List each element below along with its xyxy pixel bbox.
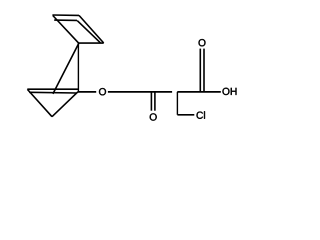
atom label O (ester) bbox=[99, 88, 106, 95]
wire: R2 left arm bbox=[27, 89, 52, 116]
wire: CH2 vertical bond bbox=[176, 92, 178, 115]
wire: bond CH to COOH carbon and OH bbox=[177, 91, 221, 93]
wire: R1 top edge outer bbox=[52, 14, 79, 16]
atom label O (ketone below) bbox=[150, 113, 157, 120]
wire: R1 bottom edge bbox=[78, 42, 103, 44]
atom label Cl bbox=[197, 112, 203, 119]
wire: R1 top edge inner (double bond) bbox=[54, 19, 77, 21]
wire: diagonal bond R1-R2 bbox=[53, 43, 79, 94]
wire: vertical bond R1-R2 bbox=[77, 43, 79, 92]
wire: COOH C=O double bond, line 1 bbox=[199, 49, 201, 92]
wire: C=O double bond down, line 1 bbox=[150, 92, 152, 111]
wire: R1 left edge bbox=[53, 16, 79, 44]
wire: bond ester O to carbonyl C bbox=[108, 91, 172, 93]
atom label O (acid, top) bbox=[199, 39, 206, 46]
wire: C=O double bond down, line 2 bbox=[154, 92, 156, 111]
wire: COOH C=O double bond, line 2 bbox=[203, 49, 205, 92]
wire: CH2-Cl horizontal bond bbox=[177, 114, 194, 116]
wire: R2 top edge outer bbox=[27, 88, 78, 90]
wire: R1 right edge outer bbox=[79, 15, 104, 43]
atom label OH (acid) bbox=[222, 88, 229, 95]
wire: bond ring to ester O bbox=[78, 91, 96, 93]
wire: R2 top edge inner (double bond) bbox=[29, 91, 76, 94]
wire: R2 right arm bbox=[52, 92, 78, 117]
ring R1 (top cyclobutene, perspective) bbox=[52, 15, 103, 43]
wire: R1 right edge inner (double bond) bbox=[77, 21, 100, 43]
ring R2 (bottom cyclopropene, perspective) bbox=[27, 89, 78, 117]
